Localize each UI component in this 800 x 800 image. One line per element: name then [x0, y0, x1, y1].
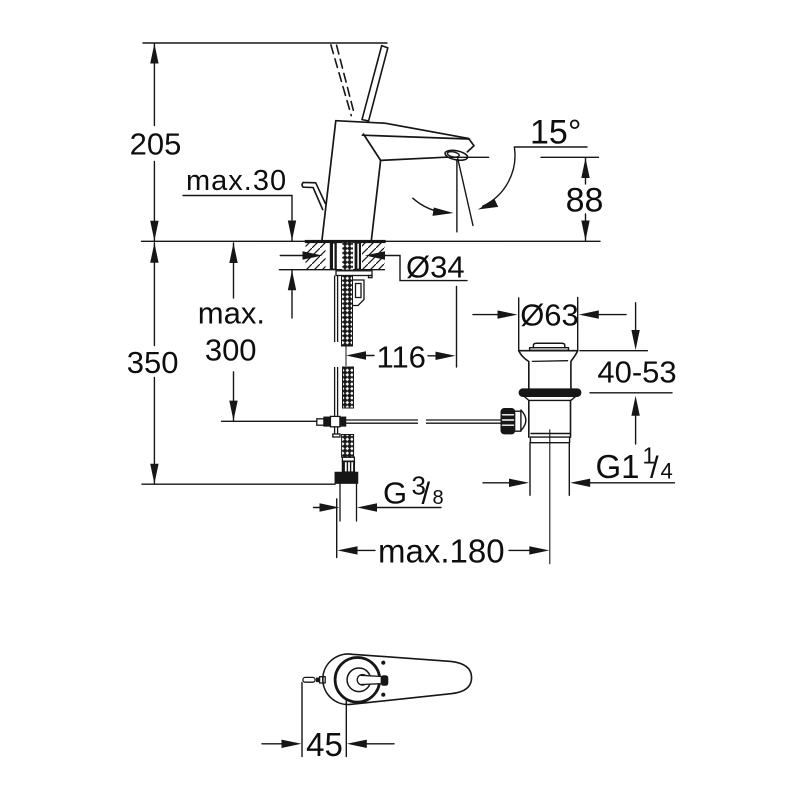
svg-text:15°: 15° [530, 114, 581, 152]
cartridge outer ring [335, 658, 380, 703]
wire max.30 leader [183, 196, 292, 221]
lever top view outline [323, 654, 472, 705]
svg-text:88: 88 [566, 182, 604, 220]
wire 15 degree underline [514, 146, 587, 148]
svg-text:max.: max. [198, 296, 265, 331]
hose tube [339, 483, 341, 521]
hose braid [342, 435, 354, 458]
mounting washer [336, 271, 372, 276]
knob connector [514, 411, 521, 431]
stem cone [361, 675, 382, 684]
wire max.30 lower arrow [291, 270, 293, 318]
wire top extension line [143, 42, 387, 44]
svg-text:G1: G1 [596, 448, 640, 485]
drain plug cap [533, 343, 564, 347]
threaded shank in hole [342, 243, 353, 270]
rod clamp center [330, 416, 340, 426]
svg-text:/: / [422, 476, 431, 511]
dimension Ø34 [280, 255, 305, 257]
stem stub [381, 675, 389, 685]
label G 3/8 [383, 471, 444, 511]
svg-text:350: 350 [127, 345, 179, 380]
drain seat band [525, 397, 576, 401]
pop-up rod upper [334, 276, 336, 343]
hose collar [342, 457, 354, 461]
drain gasket [519, 389, 580, 396]
svg-text:4: 4 [661, 459, 673, 484]
drain body bottom [531, 433, 570, 435]
pop-up rod horizontal double line [346, 419, 418, 421]
lever handle solid [362, 46, 388, 121]
deck hatch right [362, 243, 385, 270]
faucet body outline [322, 121, 336, 240]
svg-text:40-53: 40-53 [597, 355, 676, 390]
knurled knob [501, 409, 514, 434]
wire deck bottom line [279, 269, 384, 271]
svg-text:300: 300 [205, 333, 257, 368]
drain flange [519, 350, 578, 352]
dimension Ø63 [518, 298, 520, 350]
water stream lines [456, 160, 458, 232]
rod clamp right block [340, 417, 346, 426]
svg-text:Ø34: Ø34 [406, 250, 465, 285]
svg-text:max.180: max.180 [378, 533, 505, 570]
dimension G 3/8 line [314, 507, 324, 509]
faucet aerator [444, 149, 468, 162]
wire pop-up rod left line [222, 420, 317, 422]
pop-up rod mid [334, 367, 336, 416]
wire deck line [142, 240, 601, 242]
svg-text:Ø63: Ø63 [520, 298, 579, 333]
deck hatch left [306, 243, 326, 270]
pop-up rod lower stub [334, 427, 336, 434]
pop-up rod horizontal: end cap [317, 419, 324, 425]
swivel arc left [413, 198, 448, 213]
hose crimp nut [342, 461, 354, 472]
svg-text:116: 116 [377, 340, 426, 375]
rod clamp left block [324, 417, 330, 426]
svg-text:G: G [383, 476, 407, 511]
dimension max.180 [336, 499, 338, 558]
screw dot top [381, 661, 385, 665]
dimension 40-53 [635, 303, 637, 331]
break continuation line [345, 344, 347, 366]
swivel arc right [483, 147, 515, 206]
svg-text:/: / [650, 450, 659, 485]
dimension 116 [346, 351, 366, 359]
wire spout axis extension line [456, 286, 458, 367]
handle side pin [302, 182, 325, 209]
drain boss [521, 410, 526, 431]
threaded shank upper [342, 276, 353, 347]
cartridge small circle [357, 675, 368, 686]
screw dot bottom [381, 693, 385, 697]
hose nut [335, 472, 357, 483]
mounting bracket [353, 280, 364, 306]
dimension max.300 [233, 243, 235, 298]
dimension 205 line [153, 44, 155, 126]
threaded shank lower [343, 367, 354, 408]
dimension 45 [301, 683, 303, 757]
label G1 1/4 [596, 443, 673, 485]
svg-text:45: 45 [306, 726, 343, 763]
svg-text:max.30: max.30 [186, 165, 287, 197]
dimension 88 [541, 156, 599, 158]
drain tailpipe [529, 443, 531, 496]
cartridge middle ring [347, 668, 371, 692]
svg-text:8: 8 [433, 487, 444, 509]
dimension 350 line [153, 243, 155, 346]
lever handle dashed alternate [331, 45, 351, 116]
shank parts in deck hole [330, 243, 361, 270]
dimension G1 1/4 line [483, 482, 513, 484]
drain body [528, 400, 530, 437]
top view pin [303, 677, 315, 682]
wire bottom reference line (350) [142, 483, 335, 485]
faucet base plate [305, 240, 386, 243]
drain center line [549, 430, 551, 564]
wire outlet reference line [446, 156, 489, 158]
svg-text:205: 205 [130, 127, 182, 162]
